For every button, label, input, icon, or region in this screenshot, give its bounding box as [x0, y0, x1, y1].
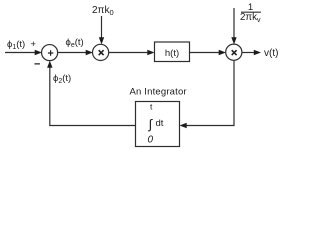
- svg-text:v(t): v(t): [264, 48, 278, 59]
- node label phi_e(t): [66, 37, 84, 49]
- wire: integrator output left and up to summing junction: [47, 61, 135, 126]
- plus sign at summing input: [31, 39, 37, 50]
- label An Integrator: [130, 87, 187, 98]
- svg-text:h(t): h(t): [165, 48, 179, 59]
- wire: multiplier M2 to output: [242, 50, 261, 55]
- wire: kv gain into multiplier M2: [231, 8, 236, 44]
- label 1/(2 pi kv): [240, 2, 261, 24]
- multiplier M1: [93, 44, 109, 60]
- node label phi2(t): [53, 73, 71, 85]
- svg-text:0: 0: [148, 135, 154, 146]
- svg-text:−: −: [34, 58, 40, 70]
- input label phi1(t): [7, 39, 25, 51]
- label 2 pi k0: [92, 5, 114, 17]
- wire: k0 gain into multiplier M1: [99, 16, 104, 44]
- svg-text:+: +: [31, 39, 37, 50]
- svg-text:ϕ1(t): ϕ1(t): [7, 39, 25, 51]
- wire: M2 output down and left to integrator input: [180, 61, 235, 129]
- block h(t): [155, 42, 190, 62]
- wire: summing junction to multiplier M1: [58, 50, 93, 55]
- output label v(t): [264, 48, 278, 59]
- wire: input to summing junction: [5, 50, 42, 55]
- integrator block: [136, 102, 180, 147]
- svg-text:dt: dt: [156, 118, 164, 129]
- wire: h(t) to multiplier M2: [190, 50, 226, 55]
- svg-text:An Integrator: An Integrator: [130, 87, 187, 98]
- svg-text:ϕ2(t): ϕ2(t): [53, 73, 71, 85]
- minus sign at feedback input: [34, 58, 40, 70]
- summing junction S1: [42, 45, 58, 61]
- svg-text:ϕe(t): ϕe(t): [66, 37, 84, 49]
- multiplier M2: [226, 44, 242, 60]
- wire: multiplier M1 to h(t) block: [109, 50, 154, 55]
